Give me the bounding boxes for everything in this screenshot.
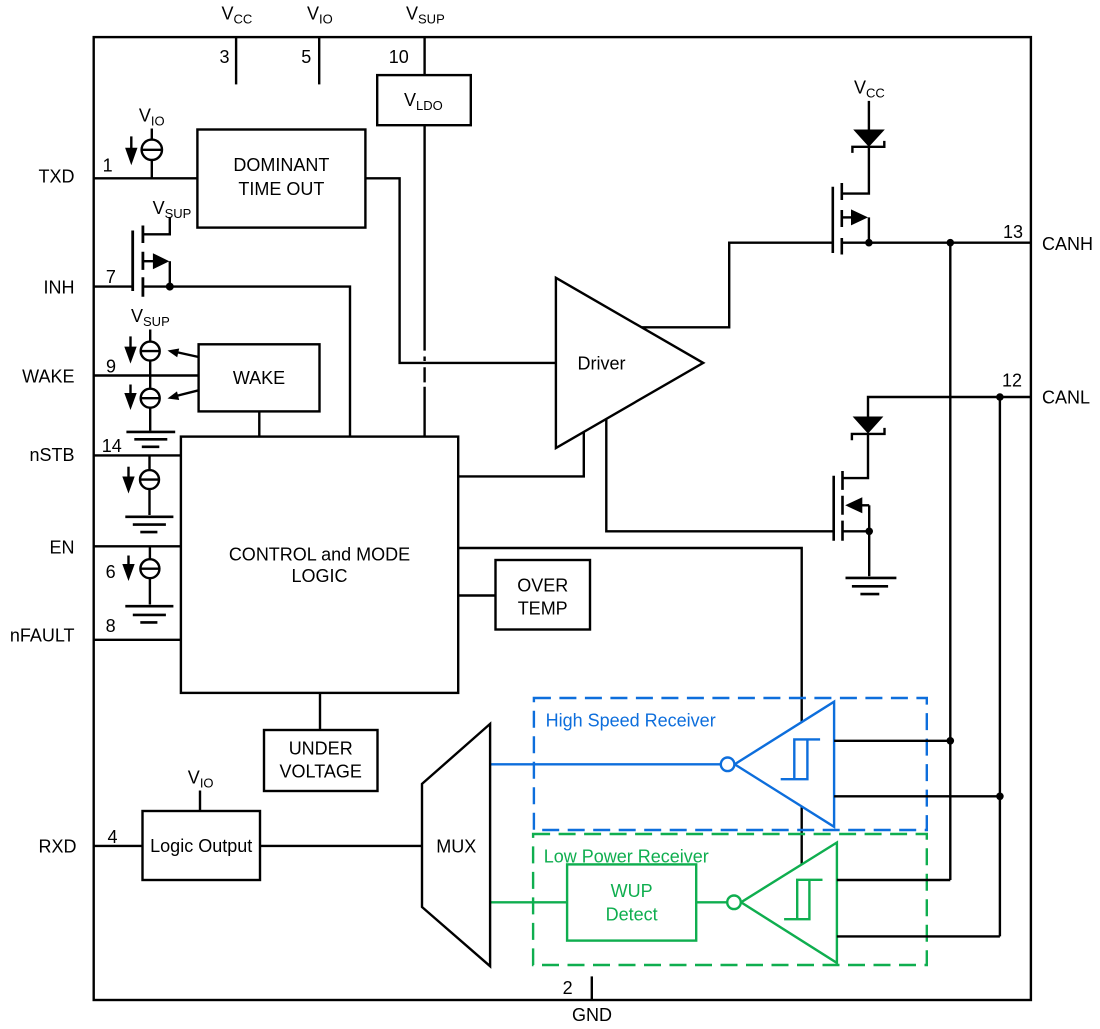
svg-text:14: 14 bbox=[102, 436, 122, 456]
wire CANH tap to receivers bbox=[949, 243, 951, 880]
pin 3 VCC stub bbox=[235, 38, 237, 84]
node junction dot CANL tap bbox=[996, 393, 1004, 401]
block High Speed Receiver dashed boundary bbox=[534, 698, 927, 830]
svg-text:9: 9 bbox=[106, 357, 116, 377]
wire Q2 source to ground bbox=[868, 531, 870, 576]
ground under WAKE sources bbox=[126, 432, 175, 447]
block CONTROL and MODE LOGIC bbox=[181, 437, 458, 693]
wire control logic enable to low power receiver bbox=[458, 548, 802, 864]
svg-text:4: 4 bbox=[107, 827, 117, 847]
current direction arrow at I3 bbox=[124, 385, 136, 411]
wire control logic to OVER TEMP bbox=[458, 594, 495, 596]
svg-text:3: 3 bbox=[219, 47, 229, 67]
wire Logic Output to MUX bbox=[260, 845, 422, 847]
wire CANH line to pin 13 bbox=[869, 241, 1030, 243]
svg-text:5: 5 bbox=[301, 47, 311, 67]
svg-text:OVER: OVER bbox=[517, 575, 568, 595]
wire Driver output to CANH transistor gate bbox=[641, 243, 833, 328]
svg-text:EN: EN bbox=[49, 537, 74, 557]
ground under EN source bbox=[125, 606, 173, 622]
transistor Q2 CANL low-side bbox=[834, 471, 870, 541]
arrow WAKE block to I2 bbox=[168, 349, 199, 358]
op-amp U1 high speed receiver comparator bbox=[721, 702, 834, 827]
svg-text:Detect: Detect bbox=[606, 904, 658, 924]
wire VSUP net from VLDO down to control logic with crossover break bbox=[423, 125, 425, 436]
svg-text:WAKE: WAKE bbox=[22, 366, 74, 386]
wire DOMINANT TIME OUT output to Driver input bbox=[365, 178, 556, 363]
wire VSUP to I2 to WAKE line to I3 to ground bbox=[149, 330, 151, 431]
svg-text:8: 8 bbox=[106, 616, 116, 636]
svg-text:VCC: VCC bbox=[222, 4, 253, 27]
svg-text:Logic Output: Logic Output bbox=[150, 836, 252, 856]
current source I5 bbox=[140, 559, 159, 578]
svg-text:CONTROL and MODE: CONTROL and MODE bbox=[229, 544, 410, 564]
wire TXD pin to DOMINANT TIME OUT bbox=[94, 177, 197, 179]
node junction dot INH bbox=[166, 283, 174, 291]
svg-text:nSTB: nSTB bbox=[29, 445, 74, 465]
svg-text:1: 1 bbox=[103, 156, 113, 176]
svg-text:VSUP: VSUP bbox=[131, 306, 170, 329]
wire MUX to high speed receiver output bubble bbox=[490, 763, 721, 765]
svg-text:High Speed Receiver: High Speed Receiver bbox=[546, 711, 716, 731]
current direction arrow at I5 bbox=[122, 556, 134, 582]
current source I2 bbox=[141, 342, 160, 361]
svg-text:VCC: VCC bbox=[854, 78, 885, 101]
wire WAKE pin to WAKE block bbox=[94, 374, 199, 376]
ground under nSTB source bbox=[125, 517, 173, 532]
pin 5 VIO stub bbox=[318, 38, 320, 84]
svg-text:RXD: RXD bbox=[38, 836, 76, 856]
svg-text:WAKE: WAKE bbox=[233, 368, 285, 388]
current direction arrow at I4 bbox=[122, 467, 134, 494]
wire nFAULT pin to control logic bbox=[94, 639, 181, 641]
diode D2 zener at CANL transistor bbox=[852, 417, 885, 440]
block WUP Detect bbox=[567, 864, 696, 940]
svg-text:TXD: TXD bbox=[39, 167, 75, 187]
node junction dot receiver CANL input bbox=[996, 793, 1004, 801]
svg-text:LOGIC: LOGIC bbox=[291, 566, 347, 586]
arrow WAKE block to I3 bbox=[168, 390, 199, 400]
wire high speed receiver input from CANL bbox=[834, 795, 1000, 797]
wire Driver output to CANL transistor gate bbox=[606, 419, 833, 531]
wire D1 to Q1 drain bbox=[842, 147, 869, 194]
block OVER TEMP bbox=[496, 560, 591, 630]
block UNDER VOLTAGE bbox=[264, 730, 378, 791]
current direction arrow at TXD bbox=[125, 136, 137, 165]
ground under Q2 bbox=[846, 578, 897, 594]
wire low power receiver input from CANH bbox=[837, 879, 950, 881]
block WAKE bbox=[199, 344, 320, 411]
wire CANL tap to receivers bbox=[999, 397, 1001, 936]
wire nSTB to I4 to ground bbox=[148, 455, 150, 515]
diode D1 zener at CANH transistor bbox=[852, 130, 884, 153]
pin 2 GND stub bbox=[591, 976, 593, 999]
wire RXD pin to Logic Output bbox=[94, 845, 143, 847]
wire control logic to Driver lower input bbox=[458, 432, 584, 477]
wire WAKE block to control logic bbox=[258, 411, 260, 436]
block DOMINANT TIME OUT bbox=[197, 130, 365, 228]
svg-text:TIME OUT: TIME OUT bbox=[238, 179, 324, 199]
svg-text:DOMINANT: DOMINANT bbox=[233, 155, 329, 175]
svg-text:GND: GND bbox=[572, 1005, 612, 1025]
svg-text:WUP: WUP bbox=[611, 881, 653, 901]
wire nSTB pin to control logic bbox=[94, 454, 181, 456]
svg-text:7: 7 bbox=[106, 267, 116, 287]
svg-text:VSUP: VSUP bbox=[406, 4, 445, 27]
svg-text:12: 12 bbox=[1002, 371, 1022, 391]
svg-text:13: 13 bbox=[1003, 222, 1023, 242]
svg-text:VOLTAGE: VOLTAGE bbox=[280, 762, 362, 782]
wire VIO to current source I1 bbox=[151, 129, 153, 140]
wire high speed receiver input from CANH bbox=[834, 740, 950, 742]
op-amp Driver bbox=[556, 278, 703, 448]
svg-text:CANH: CANH bbox=[1042, 234, 1093, 254]
wire I1 to TXD line bbox=[151, 160, 153, 178]
svg-text:VIO: VIO bbox=[139, 106, 165, 129]
wire EN to I5 to ground bbox=[149, 546, 151, 604]
current source I1 on TXD bbox=[142, 140, 162, 160]
svg-text:VSUP: VSUP bbox=[153, 198, 192, 221]
node junction dot Q2 source bbox=[865, 528, 873, 536]
node junction dot receiver CANH input bbox=[947, 737, 955, 745]
wire CANL line to pin 12 bbox=[868, 397, 1030, 417]
current source I4 bbox=[140, 470, 159, 489]
pin 10 VSUP stub bbox=[423, 38, 425, 75]
svg-text:CANL: CANL bbox=[1042, 387, 1090, 407]
block Low Power Receiver dashed boundary bbox=[533, 834, 927, 965]
wire D2 to Q2 drain bbox=[843, 434, 869, 478]
wire low power receiver input from CANL bbox=[837, 935, 1000, 937]
node junction dot CANH tap bbox=[947, 239, 955, 247]
svg-text:TEMP: TEMP bbox=[518, 598, 568, 618]
svg-text:2: 2 bbox=[563, 978, 573, 998]
svg-text:nFAULT: nFAULT bbox=[10, 626, 75, 646]
svg-text:VIO: VIO bbox=[188, 768, 214, 791]
op-amp U2 low power receiver comparator bbox=[727, 843, 837, 963]
svg-text:INH: INH bbox=[44, 277, 75, 297]
transistor Q1 CANH high-side bbox=[833, 183, 869, 255]
wire INH pin through transistor Q3 source to control logic bbox=[94, 287, 350, 437]
current direction arrow at I2 bbox=[124, 336, 136, 363]
block Logic Output bbox=[143, 811, 261, 880]
svg-text:UNDER: UNDER bbox=[289, 739, 353, 759]
node junction dot Q1 source bbox=[865, 239, 873, 247]
chip boundary bbox=[94, 37, 1031, 1000]
wire control logic to UNDER VOLTAGE bbox=[319, 693, 321, 730]
svg-text:6: 6 bbox=[106, 562, 116, 582]
wire EN pin to control logic bbox=[94, 545, 181, 547]
wire MUX to WUP Detect bbox=[490, 901, 567, 903]
svg-text:VIO: VIO bbox=[307, 4, 333, 27]
svg-text:10: 10 bbox=[389, 47, 409, 67]
wire VIO to Logic Output bbox=[199, 791, 201, 812]
current source I3 bbox=[141, 389, 160, 408]
regulator VLDO block bbox=[377, 75, 471, 125]
svg-text:MUX: MUX bbox=[436, 836, 476, 856]
block MUX bbox=[422, 724, 490, 966]
wire WUP Detect to low power receiver bubble bbox=[696, 901, 727, 903]
wire VCC to diode D1 bbox=[868, 101, 870, 130]
transistor Q3 INH high-side switch bbox=[133, 218, 170, 297]
svg-text:Driver: Driver bbox=[578, 353, 626, 373]
